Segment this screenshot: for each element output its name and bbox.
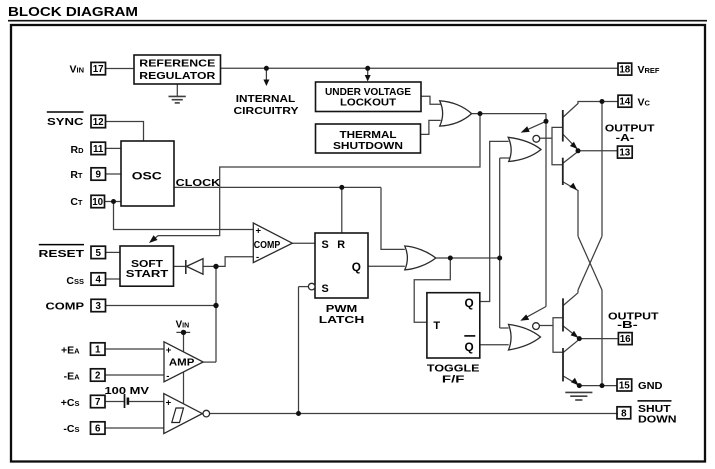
svg-text:SHUTDOWN: SHUTDOWN (333, 141, 403, 152)
svg-text:+: + (256, 226, 262, 237)
svg-text:COMP: COMP (46, 301, 85, 313)
svg-text:4: 4 (95, 275, 101, 286)
svg-text:100 MV: 100 MV (105, 386, 150, 397)
svg-text:13: 13 (619, 148, 630, 159)
svg-text:12: 12 (93, 117, 104, 128)
svg-text:LOCKOUT: LOCKOUT (340, 97, 397, 108)
svg-text:9: 9 (95, 170, 101, 181)
svg-text:+: + (166, 397, 172, 408)
svg-text:DOWN: DOWN (638, 413, 677, 425)
svg-text:S: S (322, 239, 329, 251)
svg-text:SYNC: SYNC (47, 116, 84, 128)
svg-text:-: - (166, 371, 169, 382)
svg-text:OSC: OSC (132, 171, 162, 183)
svg-text:17: 17 (93, 64, 104, 75)
svg-text:14: 14 (619, 97, 630, 108)
svg-text:CLOCK: CLOCK (176, 177, 221, 189)
svg-text:BLOCK DIAGRAM: BLOCK DIAGRAM (8, 5, 138, 19)
svg-text:-EA: -EA (64, 370, 81, 382)
svg-text:18: 18 (619, 65, 630, 76)
svg-text:VC: VC (638, 97, 651, 109)
svg-text:COMP: COMP (254, 240, 281, 251)
svg-text:10: 10 (92, 197, 103, 208)
svg-text:Q: Q (465, 340, 474, 354)
svg-text:-CS: -CS (63, 423, 79, 435)
svg-text:REFERENCE: REFERENCE (139, 58, 215, 70)
svg-text:CIRCUITRY: CIRCUITRY (234, 105, 299, 117)
svg-text:GND: GND (638, 380, 663, 392)
svg-text:RESET: RESET (39, 248, 85, 260)
svg-text:LATCH: LATCH (319, 314, 365, 326)
svg-text:+: + (166, 345, 172, 356)
svg-text:+CS: +CS (61, 397, 80, 409)
svg-text:-A-: -A- (616, 132, 635, 144)
svg-text:START: START (126, 268, 169, 280)
svg-text:VREF: VREF (638, 64, 660, 76)
svg-text:-B-: -B- (617, 319, 638, 331)
svg-text:F/F: F/F (442, 374, 465, 386)
svg-text:11: 11 (93, 144, 104, 155)
svg-text:R: R (337, 239, 345, 251)
svg-text:AMP: AMP (169, 357, 195, 369)
svg-text:Q: Q (352, 260, 361, 274)
svg-text:VIN: VIN (69, 64, 84, 76)
svg-text:16: 16 (620, 334, 631, 345)
svg-text:5: 5 (95, 248, 101, 259)
svg-text:6: 6 (95, 424, 101, 435)
svg-text:RD: RD (70, 144, 84, 156)
svg-text:7: 7 (95, 397, 101, 408)
svg-text:CT: CT (70, 196, 83, 208)
svg-text:CSS: CSS (66, 275, 84, 287)
svg-text:REGULATOR: REGULATOR (139, 70, 215, 82)
svg-text:S: S (322, 283, 329, 295)
svg-text:1: 1 (95, 345, 101, 356)
svg-text:T: T (433, 320, 440, 332)
svg-text:2: 2 (95, 371, 101, 382)
svg-text:THERMAL: THERMAL (340, 130, 397, 141)
svg-text:8: 8 (621, 408, 627, 419)
svg-text:+EA: +EA (61, 344, 80, 356)
svg-text:3: 3 (95, 301, 101, 312)
svg-text:RT: RT (70, 169, 83, 181)
svg-text:15: 15 (619, 381, 630, 392)
svg-text:INTERNAL: INTERNAL (236, 93, 296, 105)
svg-text:Q: Q (465, 296, 474, 310)
svg-text:-: - (256, 252, 259, 263)
